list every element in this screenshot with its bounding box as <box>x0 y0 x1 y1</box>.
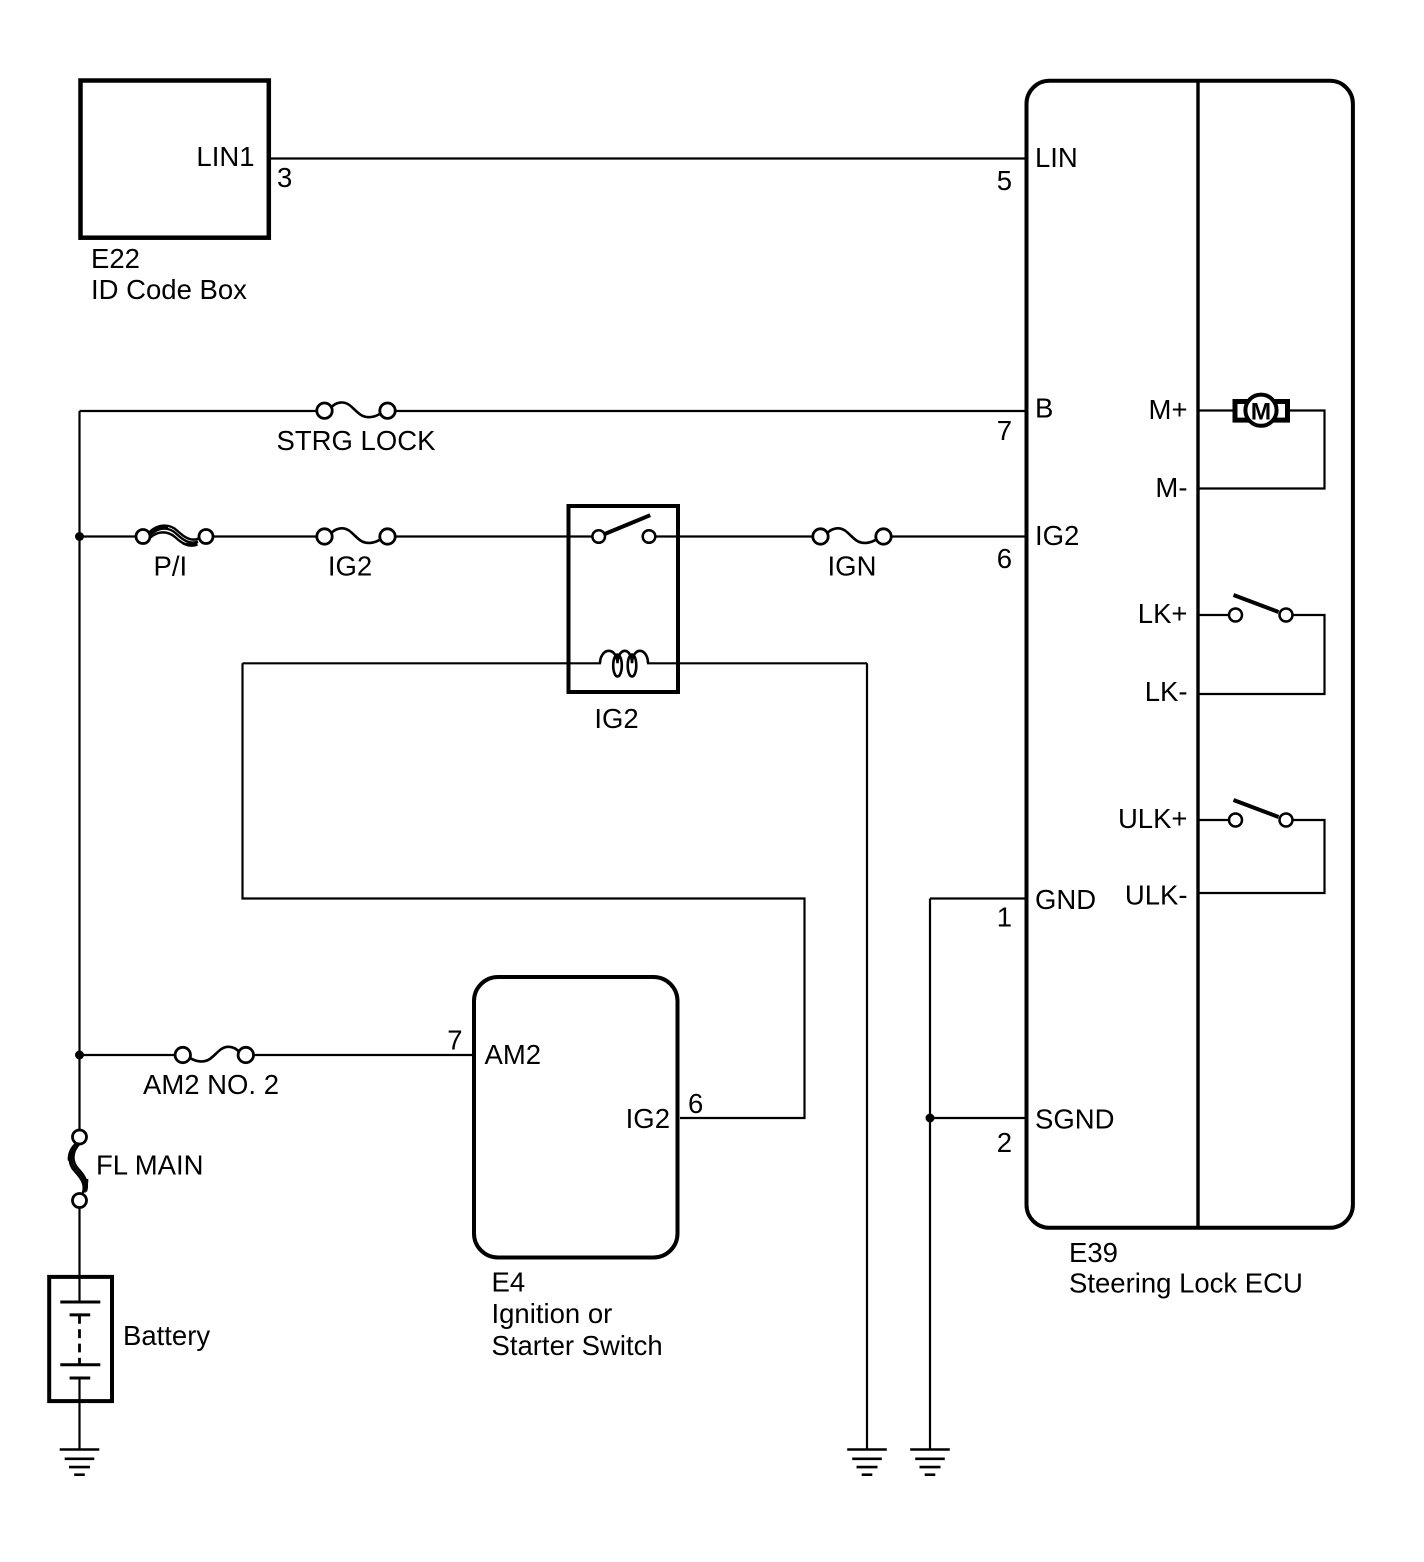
wire left bus <box>78 411 80 1276</box>
svg-text:7: 7 <box>447 1025 462 1056</box>
lock switch blade <box>1234 595 1279 612</box>
svg-text:M: M <box>1251 398 1271 425</box>
svg-text:LK-: LK- <box>1145 676 1188 707</box>
svg-text:7: 7 <box>997 415 1012 446</box>
steering lock ECU E39 box <box>1027 81 1353 1228</box>
svg-text:LIN1: LIN1 <box>196 141 254 172</box>
svg-text:IG2: IG2 <box>594 703 638 734</box>
svg-text:ULK-: ULK- <box>1125 880 1188 911</box>
svg-text:Steering Lock ECU: Steering Lock ECU <box>1069 1268 1303 1299</box>
svg-text:GND: GND <box>1035 884 1096 915</box>
svg-text:3: 3 <box>277 162 292 193</box>
svg-text:B: B <box>1035 393 1053 424</box>
battery top wire <box>78 1276 80 1302</box>
wire coil to ground <box>866 663 868 1449</box>
svg-text:ULK+: ULK+ <box>1118 803 1188 834</box>
battery plate short 2 <box>70 1377 91 1380</box>
wire LK+ stub <box>1198 614 1229 616</box>
svg-text:IG2: IG2 <box>626 1103 670 1134</box>
svg-text:6: 6 <box>997 543 1012 574</box>
E39 internal divider <box>1196 80 1199 1229</box>
lock switch contact left <box>1229 609 1242 622</box>
fusible link P/I <box>136 526 213 546</box>
battery dashed center line <box>78 1315 81 1365</box>
svg-text:6: 6 <box>688 1088 703 1119</box>
relay coil wire right <box>647 662 867 664</box>
wire coil loop to ignition switch IG2 <box>243 663 805 1118</box>
wire ULK+ stub <box>1198 819 1229 821</box>
wire AM2 row <box>80 1054 475 1056</box>
ID code box E22 <box>81 81 269 238</box>
wire GND/SGND to ground <box>929 899 931 1450</box>
battery plate long 2 <box>60 1363 100 1366</box>
svg-text:FL MAIN: FL MAIN <box>96 1150 203 1181</box>
unlock switch contact right <box>1280 814 1293 827</box>
relay IG2 box <box>569 506 679 692</box>
node SGND junction <box>926 1114 935 1123</box>
ground (battery) <box>60 1450 100 1475</box>
fuse IGN <box>813 528 891 544</box>
svg-text:IG2: IG2 <box>1035 520 1079 551</box>
svg-text:2: 2 <box>997 1127 1012 1158</box>
svg-text:5: 5 <box>997 165 1012 196</box>
svg-text:LK+: LK+ <box>1138 598 1188 629</box>
wire lock switch to LK- <box>1198 615 1325 694</box>
ignition or starter switch E4 box <box>474 977 678 1258</box>
wire IG2 row <box>80 535 1027 537</box>
battery plate long 1 <box>60 1301 100 1304</box>
svg-text:STRG LOCK: STRG LOCK <box>277 425 437 456</box>
ground (SGND) <box>910 1450 950 1475</box>
fuse STRG LOCK <box>317 403 395 419</box>
wire B to ECU <box>80 410 1027 412</box>
relay switch contact left <box>592 530 605 543</box>
relay coil <box>600 651 648 677</box>
wire SGND row <box>930 1117 1026 1119</box>
svg-text:AM2 NO. 2: AM2 NO. 2 <box>143 1069 279 1100</box>
lock switch contact right <box>1280 609 1293 622</box>
battery box <box>49 1277 112 1401</box>
svg-text:P/I: P/I <box>154 551 188 582</box>
node bus/AM2 junction <box>75 1051 84 1060</box>
fuse AM2 NO. 2 <box>175 1047 253 1063</box>
svg-text:M-: M- <box>1155 472 1187 503</box>
motor M1 <box>1235 395 1288 426</box>
wire GND row <box>930 897 1026 899</box>
svg-text:AM2: AM2 <box>485 1039 542 1070</box>
svg-text:E39: E39 <box>1069 1237 1118 1268</box>
battery bottom wire <box>78 1378 80 1450</box>
relay switch contact right <box>643 530 656 543</box>
ground (relay coil) <box>847 1450 887 1475</box>
svg-text:SGND: SGND <box>1035 1104 1114 1135</box>
svg-text:Starter Switch: Starter Switch <box>492 1330 663 1361</box>
fusible link FL MAIN <box>70 1130 87 1208</box>
wire LIN1 to LIN <box>271 157 1027 159</box>
svg-text:IGN: IGN <box>828 551 877 582</box>
unlock switch blade <box>1234 800 1279 817</box>
fuse IG2 <box>317 528 395 544</box>
svg-text:Ignition or: Ignition or <box>492 1298 613 1329</box>
svg-text:IG2: IG2 <box>328 551 372 582</box>
label E39 Steering Lock ECU <box>1069 1237 1303 1299</box>
label E4 Ignition or Starter Switch <box>492 1267 663 1362</box>
wire motor to M- <box>1198 411 1325 489</box>
svg-text:E4: E4 <box>492 1267 526 1298</box>
relay coil wire left <box>243 662 602 664</box>
label E22 ID Code Box <box>91 243 247 305</box>
svg-text:Battery: Battery <box>123 1320 210 1351</box>
relay switch blade <box>605 515 651 534</box>
unlock switch contact left <box>1229 814 1242 827</box>
wire unlock switch to ULK- <box>1198 820 1325 893</box>
battery plate short 1 <box>70 1313 91 1316</box>
node bus/IG2 junction <box>75 532 84 541</box>
svg-text:1: 1 <box>997 902 1012 933</box>
wire M+ to motor <box>1198 409 1234 411</box>
svg-text:LIN: LIN <box>1035 142 1078 173</box>
svg-text:M+: M+ <box>1149 394 1188 425</box>
svg-text:ID Code Box: ID Code Box <box>91 274 247 305</box>
svg-text:E22: E22 <box>91 243 140 274</box>
